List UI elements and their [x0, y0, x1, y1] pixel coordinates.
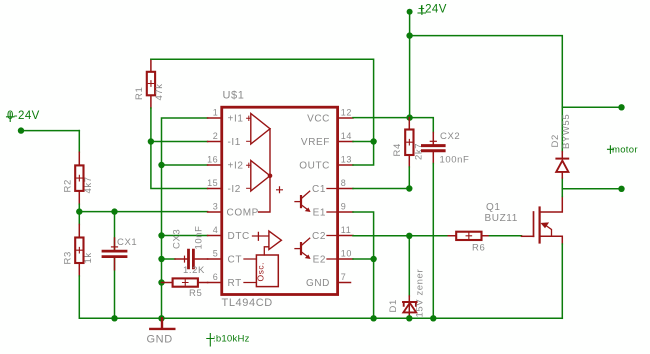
error amplifier 1 (inside U$1)	[247, 114, 270, 145]
node junction CX1 bottom on GND rail	[111, 315, 117, 321]
node junction CX2 on GND rail	[430, 315, 436, 321]
svg-text:+I2: +I2	[228, 161, 244, 172]
resistor R1	[134, 59, 165, 108]
pin 9 E1	[313, 202, 353, 219]
svg-text:VREF: VREF	[301, 137, 330, 148]
wire bus down to OUTC pin 13	[353, 142, 374, 166]
supply +24V pin	[407, 9, 413, 15]
resistor R2	[63, 152, 95, 204]
svg-text:10: 10	[341, 249, 352, 259]
svg-text:motor: motor	[612, 145, 638, 156]
svg-text:E2: E2	[313, 255, 326, 266]
wire R1 top to bus corner	[151, 59, 374, 141]
svg-text:OUTC: OUTC	[299, 161, 330, 172]
svg-text:+I1: +I1	[228, 114, 244, 125]
svg-text:R4: R4	[392, 143, 403, 156]
svg-text:CX1: CX1	[117, 237, 137, 248]
pin 14 VREF	[301, 131, 353, 148]
pin 12 VCC	[307, 108, 353, 125]
svg-text:6: 6	[213, 272, 219, 282]
net label ca 10kHz	[207, 334, 250, 347]
wire DTC branch	[162, 235, 208, 237]
svg-text:1.2K: 1.2K	[183, 265, 205, 276]
pin 13 OUTC	[299, 155, 353, 172]
diode D2 BYW55	[550, 114, 572, 178]
node junction VCC row	[406, 114, 412, 120]
wire 0-24V terminal to corner	[21, 130, 79, 132]
wire drain up to motor node	[561, 178, 563, 197]
svg-text:-I2: -I2	[228, 184, 241, 195]
node junction +24V rail	[406, 32, 412, 38]
wire C2 row pin 11 to R6	[353, 235, 448, 237]
svg-text:C1: C1	[312, 184, 326, 195]
wire R4 bottom to C1 row	[408, 167, 410, 189]
node junction bus +I2	[158, 162, 164, 168]
wire +24V pin down	[409, 12, 411, 36]
svg-text:TL494CD: TL494CD	[222, 297, 273, 309]
svg-text:R5: R5	[189, 288, 202, 299]
svg-text:9: 9	[341, 202, 347, 212]
wire +24V rail to drain column	[410, 36, 563, 152]
svg-text:5: 5	[213, 249, 219, 259]
node junction bus DTC	[158, 232, 164, 238]
wire CX2 bottom to GND rail	[432, 164, 434, 319]
ground symbol GND	[147, 318, 175, 345]
svg-text:4k7: 4k7	[83, 176, 94, 193]
net label 0-24V	[7, 110, 40, 122]
node junction C2/D1 column	[406, 233, 412, 239]
svg-text:15V zener: 15V zener	[414, 269, 425, 318]
pin 2 -I1	[208, 131, 241, 148]
node junction E bus on GND rail	[370, 315, 376, 321]
wire VCC row from pin 12 to CX2 column	[353, 118, 433, 133]
net label motor	[608, 145, 638, 156]
pin 8 C1	[312, 178, 353, 195]
wire +I2 branch	[162, 164, 208, 166]
node junction VREF bus	[370, 138, 376, 144]
svg-text:0-24V: 0-24V	[7, 110, 40, 122]
node junction bus CT/CX3	[158, 256, 164, 262]
svg-text:14: 14	[341, 131, 352, 141]
svg-text:2: 2	[213, 131, 219, 141]
svg-text:Q1: Q1	[486, 202, 501, 213]
wire R2 bottom to junction row	[78, 204, 80, 211]
node junction C1/R4	[406, 185, 412, 191]
pin 10 E2	[313, 249, 353, 266]
wire source down to GND rail	[561, 244, 563, 318]
node junction R1 / pin2	[148, 138, 154, 144]
resistor R6	[448, 232, 489, 254]
capacitor CX3	[162, 225, 208, 267]
svg-text:7: 7	[341, 272, 347, 282]
svg-text:100nF: 100nF	[440, 155, 470, 166]
svg-text:47k: 47k	[154, 83, 165, 100]
capacitor CX1	[103, 212, 137, 319]
svg-text:C2: C2	[312, 231, 326, 242]
svg-text:GND: GND	[147, 334, 173, 346]
svg-text:-I1: -I1	[228, 137, 241, 148]
svg-text:GND: GND	[306, 278, 330, 289]
wire motor terminal bottom	[562, 188, 621, 190]
dead-time comparator (inside U$1)	[253, 231, 282, 255]
oscillator block (inside U$1)	[244, 255, 278, 287]
plus mark near amp2	[277, 187, 283, 193]
wire corner down to R2	[78, 131, 80, 153]
svg-text:16: 16	[207, 155, 218, 165]
svg-text:RT: RT	[228, 278, 242, 289]
node junction R2/R3	[76, 208, 82, 214]
svg-text:BYW55: BYW55	[561, 114, 572, 149]
pin 5 CT	[208, 249, 242, 266]
node junction D1 on GND rail	[406, 315, 412, 321]
svg-text:COMP: COMP	[227, 208, 259, 219]
svg-text:D2: D2	[550, 134, 561, 147]
svg-text:CT: CT	[228, 255, 243, 266]
node amp output junction	[268, 173, 273, 178]
svg-text:R6: R6	[472, 243, 485, 254]
svg-text::b10kHz: :b10kHz	[213, 334, 250, 345]
svg-text:4: 4	[213, 225, 219, 235]
transistor output 2 (inside U$1)	[295, 238, 310, 258]
svg-text:D1: D1	[388, 299, 399, 312]
node motor terminal top dot	[618, 104, 624, 110]
wire E1 pin 9 to bus and down	[353, 212, 374, 318]
net label +24V	[418, 4, 447, 16]
wire VREF row pin 14 to bus	[353, 141, 374, 143]
wire R3 bottom to ground rail corner	[79, 276, 114, 318]
svg-text:R2: R2	[63, 179, 74, 192]
pin 16 +I2	[207, 155, 243, 172]
resistor R3	[63, 225, 95, 277]
svg-text:15: 15	[207, 178, 218, 188]
wire D1 column down	[408, 236, 410, 296]
svg-text:CX3: CX3	[172, 229, 183, 249]
wire junction down to R3	[78, 212, 80, 225]
resistor R5	[162, 265, 208, 299]
op-amp U$1 TL494CD box	[222, 90, 338, 310]
capacitor CX2	[423, 131, 470, 166]
pin 3 COMP	[208, 202, 259, 219]
wire COMP row: from R2/R3 junction to IC pin 3	[79, 211, 207, 213]
node junction bus RT/R5	[158, 279, 164, 285]
svg-text:U$1: U$1	[223, 90, 245, 102]
svg-text:CX2: CX2	[440, 131, 460, 142]
wire E2 pin 10 to bus	[353, 258, 374, 260]
svg-text:1: 1	[213, 108, 219, 118]
wire R1 bottom to -I1/-I2	[151, 108, 208, 189]
wire motor terminal top	[562, 106, 621, 108]
node motor terminal bottom dot	[618, 186, 624, 192]
transistor Q1 BUZ11	[485, 197, 563, 245]
pin 15 -I2	[207, 178, 241, 195]
wire +24V down to VCC row	[409, 36, 411, 118]
svg-text:E1: E1	[313, 208, 326, 219]
node junction E2 bus	[370, 256, 376, 262]
svg-text:R3: R3	[63, 251, 74, 264]
pin 6 RT	[208, 272, 242, 289]
svg-text:1k: 1k	[83, 252, 94, 263]
pin 1 +I1	[208, 108, 244, 125]
svg-text:13: 13	[341, 155, 352, 165]
svg-text:VCC: VCC	[307, 114, 330, 125]
node junction CX1 top	[111, 208, 117, 214]
svg-text:11: 11	[341, 225, 352, 235]
transistor output 1 (inside U$1)	[295, 191, 310, 211]
svg-text:10nF: 10nF	[194, 225, 205, 249]
node junction bus on GND rail	[158, 315, 164, 321]
pin 11 C2	[312, 225, 353, 242]
ground rail (bottom)	[115, 317, 563, 319]
svg-text:3: 3	[213, 202, 219, 212]
svg-text:BUZ11: BUZ11	[485, 213, 518, 224]
wire C1 row pin 8 to R4	[353, 188, 409, 190]
pin 7 GND	[306, 272, 351, 289]
node: 0-24V terminal dot	[18, 127, 24, 133]
diode D1 15V zener	[388, 269, 425, 319]
pin 4 DTC	[208, 225, 250, 242]
svg-text:R1: R1	[134, 87, 145, 100]
wire R6 to gate	[490, 235, 522, 237]
wire +I1 from bus top corner to pin 1	[162, 118, 208, 318]
error amplifier 2 (inside U$1)	[247, 161, 270, 192]
wire amp outputs to COMP	[259, 129, 270, 212]
svg-text:DTC: DTC	[228, 231, 250, 242]
svg-text:8: 8	[341, 178, 347, 188]
resistor R4	[392, 118, 424, 167]
svg-text:Osc.: Osc.	[256, 262, 266, 281]
svg-text:12: 12	[341, 108, 352, 118]
